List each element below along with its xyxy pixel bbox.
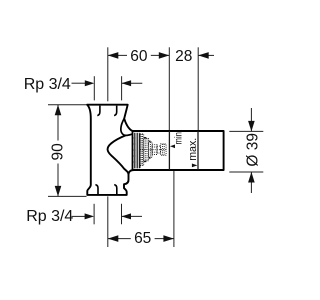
arrow Rp3/4 bottom right xyxy=(122,213,132,219)
tail line right arrow xyxy=(122,82,143,84)
dim line bottom segment xyxy=(250,172,252,193)
svg-text:65: 65 xyxy=(134,230,151,247)
top extension line xyxy=(229,130,263,132)
funnel waist curve xyxy=(108,135,129,174)
svg-text:60: 60 xyxy=(130,48,148,65)
step 3 xyxy=(149,142,153,157)
step 2 xyxy=(144,138,149,160)
dim line 65 (with gap for text) xyxy=(108,238,131,240)
step 1 xyxy=(140,134,144,166)
arrow 60 right xyxy=(159,52,170,59)
svg-text:28: 28 xyxy=(175,48,192,65)
extension line pipe axis below body xyxy=(107,196,109,247)
knurl band vertical lines xyxy=(134,133,139,169)
thread hook bottom-right xyxy=(114,185,117,195)
svg-text:Rp 3/4: Rp 3/4 xyxy=(26,208,73,225)
svg-text:Rp 3/4: Rp 3/4 xyxy=(24,76,71,93)
dim line 90 (with gap for text) xyxy=(57,105,59,141)
arrow 65 right xyxy=(163,235,174,242)
knurl dotted texture xyxy=(134,138,140,162)
tail line right arrow xyxy=(122,215,143,217)
flange left edge xyxy=(132,131,134,170)
thread hook top-left xyxy=(97,106,100,116)
min wall line xyxy=(168,131,170,170)
svg-text:max.: max. xyxy=(187,138,199,161)
thread extension line left xyxy=(93,76,95,100)
svg-text:min.: min. xyxy=(174,130,185,145)
thread extension line left xyxy=(93,204,95,225)
tip flare xyxy=(161,144,167,155)
axis dotted line xyxy=(140,149,166,151)
arrow 60 left xyxy=(108,52,119,59)
svg-text:90: 90 xyxy=(50,143,67,161)
arrow 90 down xyxy=(55,186,62,197)
extension line B (min wall line, above box) xyxy=(168,47,170,131)
max wall line xyxy=(197,131,199,170)
dim line tail right of C xyxy=(198,54,214,56)
spindle shoulder ticks xyxy=(144,138,151,162)
dim line top segment xyxy=(250,108,252,131)
funnel fold (balloon) xyxy=(121,119,133,136)
knurl right boundary xyxy=(139,134,141,169)
step1 inner verticals xyxy=(140,134,142,166)
leader line from text xyxy=(72,215,87,217)
arrow 90 up xyxy=(55,105,62,116)
thread hook top-right xyxy=(114,106,117,116)
arrow Rp3/4 top right xyxy=(122,80,132,86)
step 4 xyxy=(152,145,157,155)
arrow Ø39 down xyxy=(248,121,255,132)
step2 inner verticals xyxy=(144,138,146,160)
body + sleeve silhouette xyxy=(87,105,224,195)
arrow 65 left xyxy=(108,235,119,242)
arrow min xyxy=(170,145,175,149)
arrow Rp3/4 bottom left xyxy=(85,213,95,219)
step3 inner vertical xyxy=(149,142,151,157)
top extension line xyxy=(48,104,86,106)
thread extension line right xyxy=(121,76,123,100)
extension line right (from sleeve bottom) xyxy=(173,171,175,248)
step 5 (neck) xyxy=(157,146,161,153)
arrow 28 right-outside xyxy=(198,52,209,59)
extension line C (max wall line, above box) xyxy=(197,47,199,131)
extension line A (pipe axis, top) xyxy=(107,47,109,101)
dim line 60 (with gap for text) xyxy=(108,54,127,56)
bottom extension line xyxy=(48,195,87,197)
bottom extension line xyxy=(229,171,263,173)
svg-text:Ø 39: Ø 39 xyxy=(245,133,262,167)
thread hook bottom-left xyxy=(95,185,98,195)
arrow Ø39 up xyxy=(248,172,255,183)
arrow max xyxy=(192,163,198,167)
thread extension line right xyxy=(121,204,123,225)
flare inner verticals xyxy=(161,144,163,155)
arrow Rp3/4 top left xyxy=(85,80,95,86)
step4 inner horizontals xyxy=(152,146,157,148)
leader line from text xyxy=(72,82,87,84)
